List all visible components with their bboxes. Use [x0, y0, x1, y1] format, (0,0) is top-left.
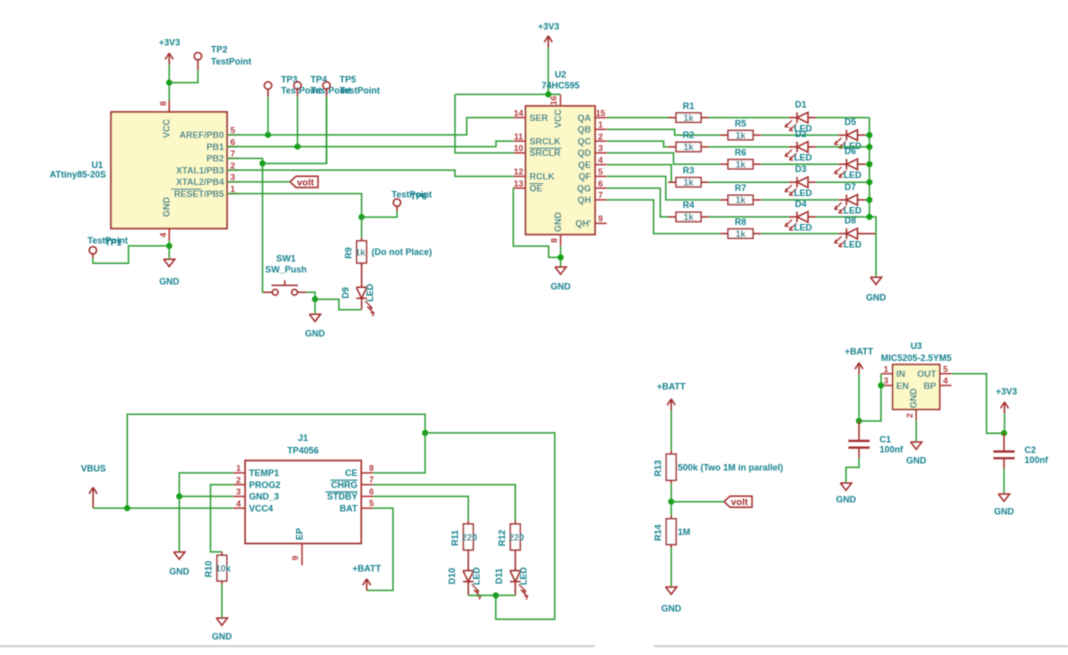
wire R5 to D5 — [761, 134, 839, 136]
svg-text:TestPoint: TestPoint — [211, 57, 251, 67]
svg-text:+3V3: +3V3 — [996, 386, 1017, 396]
label TP5 reference — [340, 75, 357, 85]
svg-text:LED: LED — [472, 567, 482, 586]
svg-text:(Do not Place): (Do not Place) — [372, 247, 433, 257]
label R4 value — [683, 212, 694, 222]
junction U2 GND node — [558, 254, 564, 260]
wire R8 to D8 — [761, 233, 839, 235]
U2 pin 8 GND (bottom) — [549, 212, 563, 247]
U1 pin 3 XTAL2/PB4 — [176, 172, 239, 187]
svg-text:QD: QD — [578, 148, 592, 158]
svg-text:CHRG: CHRG — [331, 480, 358, 490]
junction bus — [866, 132, 872, 138]
wire D7 to GND bus — [866, 199, 870, 201]
label R12 reference — [497, 530, 507, 547]
svg-text:2: 2 — [598, 131, 603, 141]
junction PB1/TP4 — [294, 144, 300, 150]
wire SRCLR tie-high — [455, 94, 514, 152]
svg-text:D11: D11 — [494, 568, 504, 584]
label R5 value — [735, 130, 746, 140]
U2 pin 4 QE — [578, 155, 607, 170]
wire TP1 link — [93, 246, 169, 263]
wire U1 GND down — [168, 240, 170, 258]
svg-text:11: 11 — [514, 131, 523, 141]
svg-text:15: 15 — [596, 108, 606, 118]
label J1 reference — [298, 433, 308, 443]
svg-text:GND: GND — [866, 293, 887, 303]
svg-text:14: 14 — [514, 108, 524, 118]
label D3 reference — [795, 164, 807, 174]
label R7 value — [735, 195, 746, 205]
svg-text:D5: D5 — [845, 117, 857, 127]
wire R4 to D4 — [709, 216, 789, 218]
label R8 reference — [735, 217, 747, 227]
svg-text:1k: 1k — [735, 159, 746, 169]
wire LED GND bus — [869, 118, 876, 277]
svg-text:1: 1 — [884, 364, 889, 374]
U1 pin 8 VCC (top) — [158, 100, 172, 138]
global label volt (volt-1) — [290, 176, 318, 188]
label U2 value 74HC595 — [541, 81, 579, 91]
wire R10 to GND — [221, 584, 223, 617]
svg-text:1k: 1k — [735, 130, 746, 140]
svg-text:2: 2 — [230, 160, 235, 170]
label TP4 reference — [311, 75, 328, 85]
LED D6 — [835, 159, 866, 178]
wire R7 to D7 — [761, 199, 839, 201]
svg-text:R13: R13 — [653, 460, 663, 477]
wire QB to R5 — [607, 129, 720, 135]
IC U3 MIC5205-2.5YM5 body — [893, 365, 940, 410]
svg-text:GND: GND — [551, 282, 572, 292]
label R9 note (Do not Place) — [372, 247, 433, 257]
wire QD to R6 — [607, 153, 720, 164]
wire D2 to GND bus — [816, 146, 869, 148]
label R4 reference — [683, 200, 695, 210]
svg-text:LED: LED — [794, 153, 813, 163]
label R10 reference — [204, 561, 214, 578]
LED D2 — [785, 142, 816, 161]
label C1 value — [880, 444, 905, 454]
junction bus — [866, 197, 872, 203]
svg-text:VBUS: VBUS — [81, 463, 106, 473]
J1 pin 5 BAT — [340, 498, 374, 513]
label TP3 value — [281, 86, 321, 96]
J1 pin 7 CHRG — [331, 475, 375, 490]
svg-text:R11: R11 — [450, 530, 460, 546]
resistor R4 — [668, 212, 709, 221]
svg-text:LED: LED — [844, 170, 863, 180]
U1 pin 4 GND (bottom) — [158, 197, 172, 241]
LED D8 — [835, 228, 866, 247]
U2 pin 13 OE — [514, 178, 544, 193]
wire R13 to R14 — [670, 484, 672, 516]
test point TP4 — [294, 82, 301, 97]
U1 pin 6 PB1 — [206, 137, 238, 152]
svg-text:1k: 1k — [683, 212, 694, 222]
svg-text:1M: 1M — [678, 527, 691, 537]
svg-text:2: 2 — [236, 475, 241, 485]
svg-text:EP: EP — [294, 528, 304, 540]
svg-text:8: 8 — [369, 463, 374, 473]
wire QH to R8 — [607, 200, 720, 234]
svg-text:+3V3: +3V3 — [538, 21, 559, 31]
U2 pin 6 QG — [577, 178, 607, 193]
svg-text:VCC: VCC — [162, 119, 172, 139]
label C2 value — [1025, 455, 1050, 465]
wire GND stub SW1 — [314, 299, 316, 314]
label U1 reference — [91, 160, 103, 170]
label R1 reference — [683, 101, 695, 111]
svg-text:10k: 10k — [216, 564, 232, 574]
LED D3 — [785, 177, 816, 196]
LED D4 — [785, 212, 816, 231]
junction EN node — [878, 382, 884, 388]
svg-text:100nf: 100nf — [880, 444, 905, 454]
svg-text:5: 5 — [230, 125, 235, 135]
wire QC to R2 — [607, 141, 668, 147]
svg-text:CE: CE — [345, 468, 358, 478]
power flag +3V3 (U1 supply) — [159, 37, 180, 64]
svg-text:QH: QH — [578, 195, 592, 205]
U2 pin 5 QF — [579, 167, 607, 182]
ground C1-GND — [836, 483, 857, 505]
svg-text:TP5: TP5 — [340, 75, 357, 85]
junction +3V3/TP2 — [166, 80, 172, 86]
IC U1 ATtiny85-20S body — [111, 112, 227, 229]
svg-text:R1: R1 — [683, 101, 695, 111]
label D6 reference — [845, 146, 857, 156]
svg-text:QF: QF — [579, 172, 592, 182]
svg-text:R4: R4 — [683, 200, 695, 210]
U3 pin 5 OUT — [917, 364, 951, 379]
J1 pin 2 PROG2 — [233, 475, 280, 490]
svg-text:220: 220 — [509, 532, 524, 542]
svg-text:PROG2: PROG2 — [249, 480, 281, 490]
junction SW1/D9/GND — [312, 296, 318, 302]
J1 pin 9 EP (bottom) — [290, 528, 305, 565]
label TP6 value TestPoint — [392, 190, 432, 200]
svg-text:R5: R5 — [735, 118, 747, 128]
svg-text:+BATT: +BATT — [657, 382, 686, 392]
label TP1 reference — [105, 238, 122, 248]
label R11 reference — [450, 530, 460, 546]
wire U2 GND down — [560, 246, 562, 266]
svg-text:PB1: PB1 — [206, 142, 224, 152]
wire GND_3 down — [178, 496, 180, 551]
svg-text:3: 3 — [236, 487, 241, 497]
svg-text:TP1: TP1 — [105, 238, 122, 248]
svg-text:VCC4: VCC4 — [249, 503, 273, 513]
svg-text:D3: D3 — [795, 164, 807, 174]
wire VCC tie — [455, 93, 561, 95]
svg-text:GND: GND — [836, 495, 857, 505]
power flag VBUS — [81, 463, 106, 508]
label D10 value — [472, 567, 482, 586]
label D9 reference — [340, 287, 350, 299]
wire D1 to GND bus — [816, 117, 869, 119]
U3 pin 4 BP — [924, 376, 952, 391]
wire +BATT to R13 — [670, 410, 672, 450]
label D11 reference — [494, 568, 504, 584]
svg-text:D8: D8 — [845, 216, 857, 226]
power flag +3V3 (U2 supply) — [538, 21, 559, 94]
svg-text:3: 3 — [884, 376, 889, 386]
svg-text:10: 10 — [514, 143, 524, 153]
capacitor C1 — [848, 421, 869, 458]
junction +3V3/VCC/SRCLR — [545, 91, 551, 97]
test point TP5 — [323, 82, 330, 97]
svg-text:R6: R6 — [735, 147, 747, 157]
svg-text:GND: GND — [909, 388, 919, 409]
svg-text:XTAL1/PB3: XTAL1/PB3 — [176, 165, 224, 175]
label SW1 value SW_Push — [265, 265, 307, 275]
svg-text:GND: GND — [305, 329, 326, 339]
label D3 value — [794, 188, 813, 198]
label D5 value — [844, 141, 863, 151]
svg-text:QC: QC — [578, 136, 592, 146]
ground LED-GND — [866, 277, 887, 302]
junction bus — [866, 179, 872, 185]
svg-text:D9: D9 — [340, 287, 350, 299]
junction rail/CE — [422, 430, 428, 436]
label R2 value — [683, 142, 694, 152]
svg-text:220: 220 — [462, 532, 477, 542]
resistor R14 — [666, 515, 676, 548]
svg-text:R14: R14 — [653, 524, 663, 541]
wire SW1 to GND node — [307, 292, 316, 299]
svg-text:SW1: SW1 — [276, 254, 296, 264]
test point TP2 — [194, 53, 201, 71]
label D6 value — [844, 170, 863, 180]
resistor R2 — [668, 142, 709, 151]
wire PB2 to TP5 — [263, 97, 327, 164]
label R9 reference — [343, 247, 353, 259]
svg-text:QG: QG — [577, 183, 591, 193]
wire TP4 drop — [297, 97, 299, 147]
svg-text:RCLK: RCLK — [530, 172, 555, 182]
label D5 reference — [845, 117, 857, 127]
ground U3-GND — [906, 442, 927, 466]
junction PB0/TP3 — [265, 132, 271, 138]
ground C2-GND — [994, 494, 1015, 517]
svg-text:TEMP1: TEMP1 — [249, 468, 279, 478]
label TP2 value — [211, 57, 251, 67]
LED D9 — [356, 287, 374, 316]
diode lead R12-D11 — [514, 553, 516, 570]
ground U1-GND — [159, 259, 180, 286]
resistor R8 — [720, 229, 761, 238]
wire rail to LED return — [425, 433, 555, 619]
svg-text:IN: IN — [896, 369, 905, 379]
svg-text:QH': QH' — [575, 219, 591, 229]
svg-text:GND: GND — [162, 197, 172, 218]
U2 pin 1 QB — [578, 120, 607, 135]
svg-text:1: 1 — [236, 463, 241, 473]
svg-text:+BATT: +BATT — [352, 563, 381, 573]
wire TEMP1 to GND_3 — [179, 473, 233, 497]
svg-text:GND: GND — [159, 277, 180, 287]
svg-text:D7: D7 — [845, 182, 857, 192]
IC J1 TP4056 body — [245, 461, 361, 544]
svg-text:D10: D10 — [447, 568, 457, 585]
resistor R10 — [217, 552, 227, 585]
ground R14-GND — [661, 587, 682, 614]
resistor R3 — [668, 178, 709, 187]
U1 pin 2 XTAL1/PB3 — [176, 160, 239, 175]
resistor R5 — [720, 130, 761, 139]
U2 pin 9 QH' — [575, 214, 606, 229]
svg-text:6: 6 — [598, 178, 603, 188]
svg-text:2: 2 — [904, 413, 914, 418]
svg-text:SW_Push: SW_Push — [265, 265, 307, 275]
svg-text:OUT: OUT — [917, 369, 937, 379]
svg-text:LED: LED — [844, 206, 863, 216]
svg-text:4: 4 — [158, 232, 168, 237]
junction VBUS/rail — [124, 505, 130, 511]
svg-text:MIC5205-2.5YM5: MIC5205-2.5YM5 — [881, 353, 952, 363]
LED D7 — [835, 195, 866, 214]
wire QG to R4 — [607, 188, 668, 217]
svg-text:9: 9 — [290, 555, 300, 560]
svg-text:3: 3 — [598, 143, 603, 153]
label U3 value MIC5205-2.5YM5 — [881, 353, 952, 363]
svg-text:R12: R12 — [497, 530, 507, 547]
wire VBUS to VCC4 — [93, 507, 233, 509]
switch SW1 SW_Push — [264, 280, 307, 295]
svg-text:1k: 1k — [735, 229, 746, 239]
wire R14 to GND — [670, 548, 672, 587]
U2 pin 3 QD — [578, 143, 607, 158]
label D10 reference — [447, 568, 457, 585]
svg-text:74HC595: 74HC595 — [541, 81, 579, 91]
svg-text:6: 6 — [230, 137, 235, 147]
U1 pin 1 RESET/PB5 — [171, 184, 239, 199]
svg-text:100nf: 100nf — [1025, 455, 1050, 465]
diode lead R11-D10 — [467, 553, 469, 570]
label TP4 value — [311, 86, 351, 96]
svg-text:7: 7 — [369, 475, 374, 485]
wire QF to R7 — [607, 176, 720, 200]
svg-text:ATtiny85-20S: ATtiny85-20S — [50, 170, 106, 180]
wire D4 to GND bus — [816, 216, 869, 218]
wire D9 return — [315, 299, 354, 310]
svg-text:D4: D4 — [795, 199, 807, 209]
wire VCC rail J1 — [127, 414, 425, 508]
svg-text:QB: QB — [578, 125, 592, 135]
wire PB4 to volt label — [227, 181, 290, 183]
wire D8 to GND bus — [866, 233, 877, 235]
label TP5 value — [340, 86, 380, 96]
junction U1 GND node — [166, 243, 172, 249]
svg-text:7: 7 — [230, 149, 235, 159]
label D8 reference — [845, 216, 857, 226]
label D11 value — [519, 567, 529, 586]
label D2 value — [794, 153, 813, 163]
svg-text:D2: D2 — [795, 129, 807, 139]
label R11 value — [462, 532, 477, 542]
svg-text:TestPoint: TestPoint — [340, 86, 380, 96]
label J1 value TP4056 — [287, 446, 319, 456]
label U1 value ATtiny85-20S — [50, 170, 106, 180]
resistor R6 — [720, 160, 761, 169]
wire TP2 branch — [169, 70, 198, 83]
svg-text:3: 3 — [230, 172, 235, 182]
svg-text:AREF/PB0: AREF/PB0 — [179, 130, 224, 140]
svg-text:6: 6 — [369, 486, 374, 496]
svg-text:500k (Two 1M in parallel): 500k (Two 1M in parallel) — [678, 463, 783, 473]
wire PB0 to SER — [227, 118, 514, 135]
U1 pin 7 PB2 — [206, 149, 238, 164]
label R13 reference — [653, 460, 663, 477]
svg-text:D6: D6 — [845, 146, 857, 156]
svg-text:GND: GND — [169, 567, 190, 577]
resistor R9 — [357, 238, 367, 267]
power flag +3V3 (output) — [996, 386, 1017, 433]
svg-text:OE: OE — [530, 183, 543, 193]
svg-text:7: 7 — [598, 190, 603, 200]
wire QA to R1 — [607, 117, 668, 119]
wire R2 to D2 — [709, 146, 789, 148]
svg-text:BP: BP — [924, 381, 937, 391]
IC U2 74HC595 body — [526, 106, 595, 235]
junction bus/D4 — [866, 214, 872, 220]
wire GND_3 left — [179, 495, 233, 497]
ground R10-GND — [212, 618, 233, 642]
label D4 value — [794, 223, 813, 233]
U1 pin 5 AREF/PB0 — [179, 125, 238, 140]
U2 pin 12 RCLK — [514, 167, 555, 182]
U2 pin 10 SRCLR — [514, 143, 562, 158]
LED D11 — [510, 571, 528, 600]
J1 pin 1 TEMP1 — [233, 463, 279, 478]
svg-text:5: 5 — [369, 498, 374, 508]
svg-text:GND_3: GND_3 — [249, 492, 279, 502]
wire PB2 stub — [227, 158, 263, 163]
label C2 reference — [1025, 445, 1037, 455]
label C1 reference — [880, 434, 892, 444]
svg-text:VCC: VCC — [553, 109, 563, 129]
svg-text:GND: GND — [994, 507, 1015, 517]
resistor R7 — [720, 195, 761, 204]
wire PB3 to RCLK — [227, 170, 514, 176]
wire TP6 branch — [362, 211, 397, 217]
test point TP1 — [89, 247, 96, 258]
U2 pin 15 QA — [578, 108, 607, 123]
svg-text:1: 1 — [598, 120, 603, 130]
svg-text:1k: 1k — [355, 247, 366, 257]
svg-text:+BATT: +BATT — [845, 347, 874, 357]
wire R9 top — [361, 217, 363, 237]
label R3 value — [683, 177, 694, 187]
svg-text:TP4056: TP4056 — [287, 446, 319, 456]
svg-text:1k: 1k — [735, 195, 746, 205]
svg-text:XTAL2/PB4: XTAL2/PB4 — [176, 177, 224, 187]
junction PB5/R9/TP6 — [359, 214, 365, 220]
U3 pin 3 EN — [881, 376, 909, 391]
power flag +BATT (BATT-div) — [657, 382, 686, 411]
wire +BATT to C1/EN — [858, 374, 860, 421]
wire EN/IN tie — [859, 374, 881, 421]
label D7 reference — [845, 182, 857, 192]
wire STDBY to R11 — [373, 496, 468, 520]
wire CE tie-high — [373, 433, 425, 473]
diode lead R9-D9 — [361, 263, 363, 287]
label D7 value — [844, 206, 863, 216]
U2 pin 2 QC — [578, 131, 607, 146]
label R5 reference — [735, 118, 747, 128]
svg-text:5: 5 — [598, 167, 603, 177]
